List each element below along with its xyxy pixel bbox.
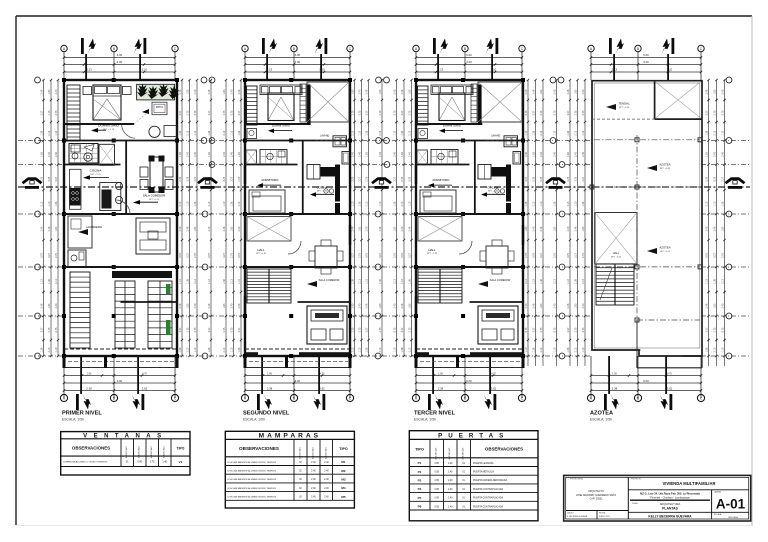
svg-text:3.27: 3.27 — [359, 176, 362, 181]
svg-text:2.75: 2.75 — [540, 327, 543, 332]
svg-text:2.40: 2.40 — [311, 488, 316, 490]
svg-text:1.10: 1.10 — [179, 279, 182, 284]
svg-text:2.40: 2.40 — [324, 462, 329, 464]
svg-text:1.83: 1.83 — [567, 152, 570, 157]
svg-text:1.10: 1.10 — [359, 347, 362, 352]
svg-text:2.40: 2.40 — [582, 303, 585, 308]
svg-text:6.00: 6.00 — [295, 53, 301, 57]
svg-text:1.83: 1.83 — [208, 152, 211, 157]
plan 4 rooftop void cross — [655, 82, 701, 119]
plan 3 left wall black segments — [415, 165, 417, 184]
svg-text:1.10: 1.10 — [582, 130, 585, 135]
svg-text:NPT + 2.85: NPT + 2.85 — [427, 253, 438, 255]
svg-text:1.38: 1.38 — [187, 279, 190, 284]
svg-text:V1: V1 — [179, 460, 183, 464]
svg-text:AZOTEA: AZOTEA — [590, 411, 613, 417]
svg-text:2.40: 2.40 — [394, 89, 397, 94]
svg-text:2.75: 2.75 — [238, 176, 241, 181]
svg-text:2.48: 2.48 — [223, 226, 226, 231]
svg-text:2.40: 2.40 — [448, 498, 453, 500]
plan 3 structural columns — [414, 78, 418, 82]
svg-text:1.83: 1.83 — [41, 152, 44, 157]
plan 4 top grid bubbles A B C — [588, 45, 594, 51]
svg-text:0.95: 0.95 — [434, 480, 439, 482]
svg-text:MZ G, Lote 34, Urb.Rupa Fab. 3: MZ G, Lote 34, Urb.Rupa Fab. 305, La Rin… — [640, 492, 700, 496]
svg-text:2.48: 2.48 — [533, 89, 536, 94]
plan 1 shower stall with cross — [99, 144, 115, 165]
svg-text:3.62: 3.62 — [491, 386, 497, 390]
svg-text:NPT + 0.15: NPT + 0.15 — [149, 199, 160, 201]
svg-text:1.83: 1.83 — [554, 226, 557, 231]
plan 4 bottom dimension lines — [591, 375, 701, 377]
svg-text:C: C — [174, 396, 177, 400]
svg-text:2.40: 2.40 — [223, 152, 226, 157]
svg-text:C: C — [349, 396, 352, 400]
svg-text:ANCHO ALT.: ANCHO ALT. — [448, 447, 451, 459]
ventanas table header row — [120, 439, 122, 467]
svg-text:6.00: 6.00 — [117, 53, 123, 57]
svg-text:2.48: 2.48 — [379, 226, 382, 231]
svg-text:1.83: 1.83 — [48, 303, 51, 308]
plan 2 void mid-left with cross — [247, 217, 291, 242]
plan 2 stairs hatch bottom — [247, 269, 291, 303]
svg-text:2.40: 2.40 — [41, 226, 44, 231]
svg-text:4.00: 4.00 — [117, 60, 123, 64]
plan 4 bottom grid bubbles A B C — [587, 394, 594, 401]
svg-text:2.48: 2.48 — [401, 89, 404, 94]
svg-text:4.70: 4.70 — [142, 372, 147, 375]
svg-text:2.75: 2.75 — [223, 110, 226, 115]
svg-text:2.40: 2.40 — [231, 303, 234, 308]
plan 3 interior wall y214 — [416, 213, 523, 215]
plan 2 top grid bubbles A B C — [242, 45, 248, 51]
plan 1 patio planter circle — [149, 126, 160, 137]
svg-text:TIPO: TIPO — [177, 446, 185, 450]
svg-text:OBSERVACIONES: OBSERVACIONES — [485, 447, 523, 452]
plan 1 storage strips left — [115, 281, 135, 348]
svg-text:1.38: 1.38 — [706, 347, 709, 352]
svg-text:2.75: 2.75 — [187, 327, 190, 332]
svg-text:ESCALA: 1/50: ESCALA: 1/50 — [62, 418, 84, 422]
svg-text:1.83: 1.83 — [238, 152, 241, 157]
plan 4 rooftop void walls top-right — [654, 81, 656, 119]
svg-text:2.75: 2.75 — [41, 176, 44, 181]
svg-text:4.70: 4.70 — [320, 372, 325, 375]
svg-text:2.40: 2.40 — [238, 226, 241, 231]
svg-text:1.83: 1.83 — [575, 89, 578, 94]
svg-text:1.38: 1.38 — [194, 201, 197, 206]
svg-text:P2: P2 — [418, 470, 422, 474]
plan 2 interior wall y124 — [245, 123, 310, 125]
svg-text:1.38: 1.38 — [525, 201, 528, 206]
svg-text:1.10: 1.10 — [231, 347, 234, 352]
puertas table data row P6 — [409, 509, 538, 511]
svg-text:DORMITORIO: DORMITORIO — [262, 178, 279, 182]
svg-text:2.10: 2.10 — [142, 68, 148, 72]
svg-text:3.27: 3.27 — [409, 253, 412, 258]
svg-text:1.10: 1.10 — [223, 201, 226, 206]
puertas table data row P1 — [409, 466, 538, 468]
svg-text:2.13: 2.13 — [366, 201, 369, 206]
svg-text:0.75: 0.75 — [401, 253, 404, 258]
svg-text:3.27: 3.27 — [379, 253, 382, 258]
plan 2 balcony slab below building — [244, 367, 350, 369]
svg-text:INDICADA: INDICADA — [728, 516, 738, 519]
svg-text:2.75: 2.75 — [194, 253, 197, 258]
svg-text:PROYECTISTA: PROYECTISTA — [570, 478, 583, 481]
plan 4 bottom section flag A — [604, 394, 607, 410]
svg-text:2.75: 2.75 — [187, 110, 190, 115]
svg-text:DIBUJO:: DIBUJO: — [567, 513, 575, 515]
svg-text:A-01: A-01 — [716, 497, 746, 512]
svg-text:3.27: 3.27 — [401, 110, 404, 115]
svg-text:1.38: 1.38 — [179, 347, 182, 352]
svg-text:2.13: 2.13 — [187, 130, 190, 135]
svg-text:2.13: 2.13 — [394, 279, 397, 284]
svg-text:2.13: 2.13 — [41, 201, 44, 206]
plan 2 stair hatch top — [247, 86, 258, 125]
plan 3 balcony slab below building — [415, 367, 523, 369]
svg-text:1.38: 1.38 — [359, 201, 362, 206]
plan 2 structural columns — [243, 78, 247, 82]
plan 4 grid intersection markers — [635, 138, 639, 142]
svg-text:6.00: 6.00 — [117, 379, 123, 383]
svg-text:2.40: 2.40 — [187, 152, 190, 157]
svg-text:2.48: 2.48 — [366, 303, 369, 308]
plan 2 closet hatch beside bed — [300, 84, 306, 122]
plan 3 section cut line stems — [437, 54, 439, 80]
plan 1 bottom dimension lines — [64, 375, 175, 377]
svg-text:1.10: 1.10 — [722, 130, 725, 135]
svg-text:2.40: 2.40 — [525, 89, 528, 94]
mamparas table data row M5 — [225, 499, 354, 501]
svg-text:2.13: 2.13 — [352, 130, 355, 135]
svg-text:2.75: 2.75 — [379, 327, 382, 332]
svg-text:2.40: 2.40 — [179, 226, 182, 231]
plan 1 interior wall y214 — [64, 213, 177, 215]
svg-text:1.95: 1.95 — [438, 372, 443, 375]
svg-text:0.75: 0.75 — [706, 253, 709, 258]
plan 3 shower stall with cross — [417, 150, 428, 164]
svg-text:PROYECTO:: PROYECTO: — [631, 479, 642, 481]
svg-text:1.10: 1.10 — [194, 347, 197, 352]
plan 4 dashed interior grid lines — [594, 139, 700, 141]
svg-text:1.38: 1.38 — [379, 279, 382, 284]
svg-text:3.27: 3.27 — [238, 110, 241, 115]
puertas table header row — [429, 439, 431, 510]
svg-text:0.75: 0.75 — [394, 110, 397, 115]
svg-text:2.40: 2.40 — [311, 462, 316, 464]
svg-text:1.83: 1.83 — [722, 226, 725, 231]
plan 3 interior wall y267 — [416, 266, 523, 268]
plan 3 double-height void with cross — [478, 82, 522, 122]
svg-text:3.27: 3.27 — [208, 110, 211, 115]
svg-text:TIPO: TIPO — [415, 448, 424, 452]
svg-text:2.48: 2.48 — [722, 152, 725, 157]
svg-text:1.38: 1.38 — [575, 279, 578, 284]
svg-text:1.38: 1.38 — [223, 279, 226, 284]
svg-text:1.83: 1.83 — [55, 226, 58, 231]
svg-text:1.10: 1.10 — [540, 201, 543, 206]
svg-text:6.00: 6.00 — [466, 53, 472, 57]
plan 1 interior wall y302 — [121, 301, 178, 303]
svg-text:1.38: 1.38 — [567, 347, 570, 352]
mamparas table data row M2 — [225, 473, 354, 475]
plan 3 void mid-left with cross — [418, 217, 462, 242]
dashed section reference line across sheet — [18, 186, 750, 188]
mamparas table data row M3 — [225, 482, 354, 484]
plan 3 bottom dimension lines — [416, 375, 522, 377]
svg-text:2.75: 2.75 — [554, 253, 557, 258]
plan 4 top section flag A — [609, 38, 612, 54]
svg-text:2.40: 2.40 — [324, 471, 329, 473]
svg-text:3.27: 3.27 — [179, 110, 182, 115]
svg-text:0.80: 0.80 — [137, 461, 142, 464]
svg-text:0.75: 0.75 — [582, 327, 585, 332]
svg-text:LAMINA:: LAMINA: — [714, 491, 722, 494]
plan 3 stairs hatch bottom — [418, 269, 462, 303]
svg-text:2.38: 2.38 — [612, 386, 618, 390]
svg-text:2.48: 2.48 — [238, 89, 241, 94]
svg-text:TIPO: TIPO — [339, 447, 348, 451]
plan 3 bottom dashed boundary — [416, 348, 523, 350]
svg-text:1.10: 1.10 — [409, 201, 412, 206]
svg-text:ARQUITECTURA: ARQUITECTURA — [660, 502, 681, 506]
plan 3 top dimension lines — [416, 57, 522, 59]
puertas table data row P4 — [409, 492, 538, 494]
plan 1 bed dormitorio — [93, 85, 121, 120]
svg-text:2.13: 2.13 — [238, 201, 241, 206]
svg-text:2.13: 2.13 — [409, 347, 412, 352]
svg-text:PUERTAS: PUERTAS — [438, 433, 509, 440]
svg-text:2.40: 2.40 — [359, 89, 362, 94]
svg-text:PLANTAS: PLANTAS — [662, 507, 678, 511]
svg-text:PRIMER NIVEL: PRIMER NIVEL — [62, 411, 102, 417]
svg-text:2.40: 2.40 — [208, 226, 211, 231]
svg-text:PUERTA CONTRAPLACADA: PUERTA CONTRAPLACADA — [473, 505, 504, 508]
svg-text:6.00: 6.00 — [643, 379, 649, 383]
svg-text:0.75: 0.75 — [179, 253, 182, 258]
plan 3 interior wall y124 — [416, 123, 482, 125]
svg-text:2.75: 2.75 — [706, 176, 709, 181]
svg-text:1.83: 1.83 — [394, 226, 397, 231]
svg-text:2.40: 2.40 — [409, 152, 412, 157]
svg-text:ESCALA: 1/50: ESCALA: 1/50 — [590, 418, 612, 422]
plan 2 bottom section flag C — [323, 394, 326, 410]
section roof marker 4 — [546, 179, 565, 184]
svg-text:2.75: 2.75 — [540, 110, 543, 115]
svg-text:1.83: 1.83 — [352, 89, 355, 94]
svg-text:DORMITORIO: DORMITORIO — [272, 123, 291, 127]
svg-text:1.83: 1.83 — [575, 303, 578, 308]
sheet border frame top — [16, 15, 752, 17]
svg-text:0.75: 0.75 — [575, 176, 578, 181]
svg-text:1.38: 1.38 — [208, 347, 211, 352]
plan 2 interior vertical wall mid — [302, 141, 304, 215]
svg-text:2.40: 2.40 — [48, 152, 51, 157]
svg-text:1.38: 1.38 — [582, 201, 585, 206]
svg-text:LAVAND.: LAVAND. — [491, 135, 501, 138]
plan 4 top section flag C — [672, 38, 675, 54]
svg-text:0.95: 0.95 — [434, 498, 439, 500]
svg-text:2.40: 2.40 — [554, 89, 557, 94]
title block outer frame — [564, 475, 751, 521]
svg-text:1.83: 1.83 — [187, 303, 190, 308]
plan 3 interior vertical wall mid — [474, 141, 476, 215]
svg-text:1.38: 1.38 — [48, 279, 51, 284]
svg-text:3.27: 3.27 — [567, 327, 570, 332]
svg-text:6.00: 6.00 — [643, 53, 649, 57]
title block sheet number A-01 — [711, 490, 713, 513]
svg-text:0.75: 0.75 — [525, 110, 528, 115]
svg-text:1.10: 1.10 — [714, 201, 717, 206]
plan 3 bed dormitorio 1 — [439, 93, 465, 121]
svg-text:1.38: 1.38 — [208, 130, 211, 135]
svg-text:1.10: 1.10 — [525, 347, 528, 352]
svg-text:3.62: 3.62 — [667, 386, 673, 390]
svg-text:1.10: 1.10 — [567, 279, 570, 284]
svg-text:NPT + 8.20: NPT + 8.20 — [619, 107, 630, 109]
svg-text:1.95: 1.95 — [267, 372, 272, 375]
svg-text:3.27: 3.27 — [366, 327, 369, 332]
svg-text:1.10: 1.10 — [394, 130, 397, 135]
svg-text:2.75: 2.75 — [352, 327, 355, 332]
plan 2 top dimension lines — [245, 57, 350, 59]
svg-text:ANCHO ALT.: ANCHO ALT. — [163, 446, 166, 458]
plan 2 bed dormitorio 1 — [268, 93, 294, 121]
svg-text:2.13: 2.13 — [187, 347, 190, 352]
plan 1 bottom small bath — [68, 250, 86, 267]
svg-text:ANCHO ALT.: ANCHO ALT. — [150, 446, 153, 458]
plan 1 bottom dashed boundary — [64, 348, 177, 350]
svg-text:3.27: 3.27 — [179, 327, 182, 332]
svg-text:2.13: 2.13 — [352, 347, 355, 352]
structural grid row lines across margins — [18, 140, 62, 142]
vertical dimension chain group 1 — [43, 80, 45, 356]
svg-text:2.40: 2.40 — [55, 89, 58, 94]
svg-text:1.83: 1.83 — [706, 152, 709, 157]
svg-text:1.38: 1.38 — [540, 279, 543, 284]
svg-text:OBSERVACIONES: OBSERVACIONES — [239, 446, 279, 451]
svg-text:1.38: 1.38 — [238, 347, 241, 352]
plan 1 top section flag C — [144, 38, 147, 54]
svg-text:3.27: 3.27 — [706, 327, 709, 332]
svg-text:3.27: 3.27 — [575, 253, 578, 258]
svg-text:3.62: 3.62 — [142, 386, 148, 390]
svg-text:2.75: 2.75 — [223, 327, 226, 332]
vertical dimension chain group 5 — [708, 80, 710, 366]
svg-text:2.75: 2.75 — [567, 176, 570, 181]
svg-text:2.40: 2.40 — [311, 471, 316, 473]
svg-text:2.13: 2.13 — [714, 130, 717, 135]
svg-text:1.83: 1.83 — [223, 303, 226, 308]
svg-text:0.95: 0.95 — [434, 506, 439, 508]
svg-text:LAVAND.: LAVAND. — [320, 135, 330, 138]
svg-text:0.75: 0.75 — [722, 110, 725, 115]
svg-text:2.48: 2.48 — [187, 226, 190, 231]
svg-text:2.13: 2.13 — [48, 130, 51, 135]
svg-text:MAMPARAS: MAMPARAS — [259, 433, 321, 440]
svg-text:2.40: 2.40 — [575, 152, 578, 157]
svg-text:2.40: 2.40 — [311, 479, 316, 481]
svg-text:ANCHO ALT.: ANCHO ALT. — [298, 447, 301, 459]
svg-text:02 HOJAS BATIENTE ALUMINIO/VID: 02 HOJAS BATIENTE ALUMINIO/VIDRIO TEMPLE… — [227, 470, 276, 473]
svg-text:M2: M2 — [341, 469, 345, 473]
svg-text:C: C — [700, 396, 703, 400]
vertical dimension chain group 2 — [181, 80, 183, 356]
section roof marker 5 — [726, 179, 745, 184]
svg-text:0.75: 0.75 — [41, 253, 44, 258]
svg-text:1.38: 1.38 — [366, 130, 369, 135]
sheet border frame right — [751, 16, 753, 526]
svg-text:1.38: 1.38 — [394, 201, 397, 206]
plan 2 door arc hall — [288, 241, 301, 254]
section roof marker 2 — [198, 179, 217, 184]
svg-text:1.95: 1.95 — [612, 372, 617, 375]
svg-text:ESCALA: 1/50: ESCALA: 1/50 — [243, 418, 265, 422]
svg-text:1.10: 1.10 — [48, 201, 51, 206]
svg-text:0.75: 0.75 — [352, 176, 355, 181]
puertas table data row P2 — [409, 474, 538, 476]
svg-text:1.10: 1.10 — [55, 347, 58, 352]
svg-text:3.13: 3.13 — [86, 68, 92, 72]
svg-text:2.75: 2.75 — [714, 327, 717, 332]
svg-text:2.40: 2.40 — [448, 472, 453, 474]
svg-text:P6: P6 — [418, 505, 422, 509]
plan 2 lavanderia fixtures — [333, 136, 347, 147]
svg-text:0.75: 0.75 — [582, 110, 585, 115]
mamparas table data row M4 — [225, 491, 354, 493]
svg-text:2.38: 2.38 — [438, 386, 444, 390]
svg-text:1.38: 1.38 — [238, 130, 241, 135]
plan 1 building outer wall — [64, 80, 177, 356]
plan 1 kitchen counter — [70, 169, 82, 209]
plan 2 interior wall y214 — [245, 213, 350, 215]
svg-text:3.27: 3.27 — [208, 327, 211, 332]
svg-text:2.40: 2.40 — [366, 226, 369, 231]
svg-text:1.10: 1.10 — [194, 130, 197, 135]
svg-text:1.38: 1.38 — [714, 279, 717, 284]
svg-text:1.10: 1.10 — [55, 130, 58, 135]
svg-text:1.38: 1.38 — [366, 347, 369, 352]
svg-text:2.40: 2.40 — [448, 506, 453, 508]
svg-text:2.13: 2.13 — [554, 279, 557, 284]
plan 1 lower heavy wall band — [112, 271, 172, 278]
svg-text:1.10: 1.10 — [238, 279, 241, 284]
svg-text:CAP: 20531: CAP: 20531 — [590, 498, 604, 501]
svg-text:1.38: 1.38 — [41, 130, 44, 135]
svg-text:1.38: 1.38 — [352, 279, 355, 284]
svg-text:2.13: 2.13 — [575, 130, 578, 135]
svg-text:0.75: 0.75 — [525, 327, 528, 332]
svg-text:1.38: 1.38 — [401, 130, 404, 135]
svg-text:C: C — [521, 396, 524, 400]
svg-text:0.75: 0.75 — [231, 327, 234, 332]
svg-text:2.48: 2.48 — [352, 226, 355, 231]
plan 3 top section flag C — [496, 38, 499, 54]
plan 1 bottom grid bubbles A B C — [60, 394, 67, 401]
svg-text:1.83: 1.83 — [714, 89, 717, 94]
svg-text:0.75: 0.75 — [554, 110, 557, 115]
svg-text:2.48: 2.48 — [231, 152, 234, 157]
svg-text:ANCHO ALT.: ANCHO ALT. — [435, 447, 438, 459]
puertas table frame — [409, 431, 538, 521]
plan 1 bathroom fixtures — [84, 153, 92, 161]
svg-text:2.40: 2.40 — [722, 89, 725, 94]
svg-text:DORMITORIO: DORMITORIO — [443, 123, 462, 127]
svg-text:M5: M5 — [341, 495, 345, 499]
svg-text:2.48: 2.48 — [55, 152, 58, 157]
